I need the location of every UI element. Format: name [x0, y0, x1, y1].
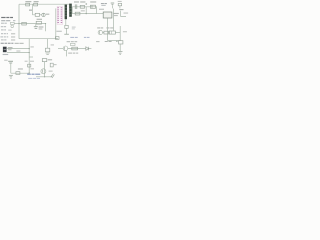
capacitor C2 plate 2 — [75, 4, 78, 9]
wire capacitor C6 lead — [10, 63, 12, 73]
wire branch down at node B — [45, 24, 47, 32]
label motor row — [1, 43, 4, 44]
wire into regulator U1 — [97, 13, 104, 15]
transistor Q2 bar — [64, 47, 66, 50]
wire output node horizontal — [108, 40, 121, 42]
label R5 — [48, 59, 52, 60]
transistor Q3 bar — [99, 31, 101, 34]
wire diode D2 lead — [65, 28, 67, 34]
diode D4 — [86, 47, 89, 51]
wire link rows left — [71, 7, 73, 14]
wire collector vertical Q1 — [44, 62, 46, 77]
resistor R1 — [26, 3, 30, 6]
wire R12 stub — [47, 39, 49, 49]
wire emitter rail — [36, 76, 52, 78]
wire Q3 collector link — [103, 32, 104, 34]
label C3 — [90, 1, 96, 2]
wire diode D4 output — [89, 48, 91, 50]
junction node 1 — [18, 23, 19, 24]
wire corner into transformer top — [68, 4, 70, 8]
wire battery positive lead — [7, 48, 29, 50]
label near bus top — [30, 68, 34, 69]
resistor R5 — [42, 59, 47, 62]
transformer T1 primary winding — [65, 5, 67, 20]
wire top right cap stub — [111, 5, 113, 8]
capacitor C3 polarized — [90, 5, 95, 8]
plus sign node — [85, 3, 87, 5]
connector SV1 body — [57, 6, 62, 24]
wire bottom left net — [11, 72, 29, 74]
ground GND3 — [46, 53, 50, 54]
junction node 7 — [55, 38, 56, 39]
label below output node — [105, 41, 108, 42]
label note 5 — [0, 36, 3, 37]
resistor R8 — [80, 5, 84, 8]
relay K1 — [109, 31, 115, 34]
label blue title — [27, 74, 31, 75]
label U1 right 1 — [113, 13, 119, 14]
fuse F1 — [118, 3, 122, 5]
label output — [49, 71, 53, 72]
wire link rows mid — [85, 7, 87, 14]
regulator U1 — [103, 12, 112, 18]
output jack symbol — [51, 74, 55, 78]
junction node 6 — [45, 23, 46, 24]
label note 3 — [1, 29, 4, 30]
wire node D vertical — [119, 26, 121, 41]
resistor R6 — [50, 63, 53, 67]
junction node 2 — [29, 48, 30, 49]
junction node 3 — [29, 52, 30, 53]
diode D3 — [16, 72, 20, 75]
resistor R12 under net — [45, 48, 49, 52]
label top right — [101, 3, 104, 4]
label between leads — [16, 51, 20, 52]
label at bus node — [30, 46, 33, 47]
wire center vertical bus — [28, 39, 30, 73]
ground GND1 — [9, 75, 13, 78]
switch S1 body — [10, 22, 14, 24]
label motor row right — [15, 43, 19, 44]
transformer T1 core stripes — [65, 6, 72, 16]
connector SV1 pins right column — [61, 7, 63, 23]
capacitor C4 plate 2 — [112, 3, 114, 6]
wire J3 stub — [119, 6, 121, 9]
wire emitter Q2 down — [65, 51, 67, 57]
wire regulator output vertical — [107, 18, 109, 40]
label mid blue 2 — [84, 37, 87, 38]
wire transformer secondary lead — [65, 19, 67, 25]
wire R11 to node D — [115, 32, 120, 34]
label R12 — [51, 44, 54, 45]
label chain bottom — [68, 53, 72, 54]
label right edge — [123, 31, 127, 32]
label near connector bottom — [56, 31, 61, 32]
label chain top — [67, 41, 71, 42]
transformer T1 secondary winding — [69, 4, 72, 17]
ground GND2 — [118, 52, 123, 55]
wire filter row 2 — [72, 13, 96, 15]
wire sense vertical — [113, 9, 115, 31]
label note 1 — [1, 23, 4, 24]
label R2 value — [34, 1, 39, 2]
label R6 — [54, 64, 57, 65]
label C1 value — [39, 28, 43, 29]
wire rectifier chain — [68, 48, 86, 50]
resistor R3 — [22, 22, 27, 25]
capacitor C2 plate 1 — [74, 4, 77, 9]
transistor Q2 — [63, 46, 68, 51]
label R9 — [81, 10, 85, 11]
wire battery negative lead — [7, 52, 29, 54]
label U1 top — [99, 9, 104, 10]
label BT1 name — [8, 47, 13, 48]
resistor R4 — [36, 21, 41, 24]
transistor Q3 — [98, 30, 102, 34]
transistor Q1 bar — [42, 70, 44, 73]
label C6 — [4, 60, 7, 61]
label Q3 — [97, 27, 100, 28]
label U1 right 2 — [113, 15, 118, 16]
label note 4b — [11, 33, 15, 34]
label C1 — [39, 26, 44, 27]
wire lower horizontal net — [19, 38, 58, 40]
junction node 4 — [29, 72, 30, 73]
junction node 5 — [44, 76, 45, 77]
wire LED D1 lead — [40, 14, 42, 16]
transistor Q1 — [41, 69, 46, 74]
junction row2 — [86, 13, 87, 14]
wire far right vertical — [121, 11, 126, 17]
resistor R9 — [75, 12, 80, 15]
label R8 — [80, 1, 85, 2]
label under battery — [3, 54, 9, 55]
label left of C7 — [25, 61, 28, 62]
wire left vertical bus — [18, 4, 20, 39]
diode D5 — [55, 37, 59, 40]
label F1 — [118, 1, 122, 2]
label K1 — [106, 27, 109, 28]
capacitor C4 plate 1 — [111, 2, 115, 5]
resistor R2 — [34, 3, 38, 6]
crystal X1 — [35, 13, 39, 16]
wire top rail — [19, 3, 69, 5]
label left of Q3 — [96, 41, 99, 42]
battery BT1 notch — [4, 49, 7, 51]
capacitor C1 plate 2 — [35, 27, 38, 30]
node bar — [64, 33, 69, 36]
capacitor C7 on bus — [28, 64, 31, 67]
wire filter row 1 — [72, 7, 96, 14]
label title line 1 — [1, 17, 5, 18]
label R1 value — [25, 1, 31, 2]
capacitor C8 — [70, 43, 75, 45]
capacitor C6 plate 1 — [8, 60, 13, 63]
capacitor C6 plate 2 — [9, 62, 12, 65]
label blue subtitle — [28, 78, 32, 79]
wire mid horizontal net — [19, 23, 46, 25]
connector SV1 pins left column — [57, 7, 59, 23]
label mid blue 1 — [70, 37, 74, 38]
label title line 2 — [1, 20, 5, 21]
label note 5b — [11, 36, 15, 37]
label right of C7 — [30, 61, 34, 62]
label right mid — [119, 9, 123, 10]
label note 2 — [1, 26, 3, 27]
LED D1 — [42, 13, 45, 16]
label R4 — [37, 19, 42, 20]
resistor R7 — [72, 47, 78, 50]
label note 6b — [11, 39, 15, 40]
label BT1 value — [8, 49, 12, 50]
wire C5 to ground — [119, 44, 121, 51]
label C2 — [74, 1, 79, 2]
capacitor C1 plate 1 — [34, 25, 38, 28]
wire C1 stub — [35, 24, 37, 27]
capacitor C5 polarized — [119, 41, 123, 44]
wire R10 to R11 — [108, 32, 111, 34]
capacitor C3 stripe — [91, 5, 93, 8]
diode D4 cathode — [88, 47, 90, 51]
wire base Q2 — [58, 48, 63, 50]
label far right — [124, 13, 129, 14]
LED D1 cathode bar — [43, 13, 45, 16]
label note 6 — [1, 39, 4, 40]
wire switch to net — [14, 23, 19, 25]
wire connector bus vertical — [55, 8, 57, 38]
relay K1 stripe — [110, 31, 112, 34]
label D3 — [18, 68, 23, 69]
label D2 — [72, 27, 76, 28]
switch S1 actuator — [11, 25, 14, 28]
capacitor C5 plus — [116, 40, 118, 42]
resistor R10 — [104, 31, 109, 34]
wire stub node C — [29, 56, 33, 58]
label R2 name — [29, 10, 32, 11]
label note 4 — [1, 33, 3, 34]
wire crystal branch — [33, 5, 35, 15]
label D1 — [46, 14, 49, 15]
diode D2 — [65, 25, 68, 28]
battery BT1 — [3, 47, 7, 53]
